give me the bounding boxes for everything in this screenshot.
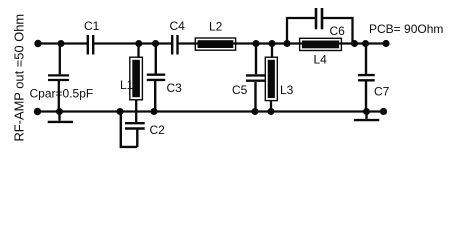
svg-text:Cpar=0.5pF: Cpar=0.5pF xyxy=(30,87,94,101)
inductor L2 xyxy=(195,38,235,50)
wire top rail left segment xyxy=(38,42,87,44)
svg-text:L1: L1 xyxy=(120,78,134,92)
svg-text:L2: L2 xyxy=(209,20,223,34)
junction C3 bottom xyxy=(151,108,158,115)
junction L3 top xyxy=(269,40,276,47)
capacitor C1 xyxy=(88,35,93,55)
svg-text:C5: C5 xyxy=(232,83,248,97)
junction Cpar top xyxy=(58,40,65,47)
capacitor C5 xyxy=(246,44,266,112)
capacitor C7 xyxy=(358,44,375,112)
ground left xyxy=(48,112,73,122)
inductor L1 xyxy=(130,44,143,123)
capacitor C4 xyxy=(172,35,177,55)
node input terminal top xyxy=(34,40,41,47)
svg-text:C7: C7 xyxy=(374,85,390,99)
capacitor C3 xyxy=(147,44,165,112)
inductor L4 xyxy=(300,38,342,50)
capacitor C6 xyxy=(316,8,322,29)
wire C2 loop xyxy=(121,112,138,147)
junction C3 top xyxy=(152,40,159,47)
svg-text:PCB= 90Ohm: PCB= 90Ohm xyxy=(369,22,443,36)
svg-text:C1: C1 xyxy=(84,19,100,33)
junction C5 top xyxy=(253,40,260,47)
capacitor Cpar xyxy=(48,44,69,112)
junction C5 bottom xyxy=(252,108,259,115)
svg-text:C6: C6 xyxy=(330,24,346,38)
ground right xyxy=(354,112,380,121)
svg-text:C3: C3 xyxy=(167,81,183,95)
svg-text:RF-AMP out =50 Ohm: RF-AMP out =50 Ohm xyxy=(12,14,27,142)
svg-text:L4: L4 xyxy=(314,53,328,67)
svg-text:C4: C4 xyxy=(170,19,186,33)
capacitor C2 xyxy=(125,123,145,147)
wire bottom rail xyxy=(37,110,384,112)
junction Cpar bottom xyxy=(56,108,63,115)
junction loop right xyxy=(351,40,358,47)
junction C7 top xyxy=(362,40,369,47)
junction C2 loop xyxy=(117,108,124,115)
junction L3 bottom xyxy=(268,108,275,115)
svg-text:L3: L3 xyxy=(280,83,294,97)
inductor L3 xyxy=(265,44,277,112)
wire top rail right segment xyxy=(178,42,386,44)
node input terminal bottom xyxy=(34,108,41,115)
wire top rail middle segment xyxy=(94,42,172,44)
wire C6 loop xyxy=(287,18,353,44)
node output terminal bottom xyxy=(380,108,387,115)
svg-text:C2: C2 xyxy=(150,123,166,137)
junction loop left xyxy=(284,40,291,47)
node output terminal top xyxy=(382,40,389,47)
junction L1 top xyxy=(135,40,142,47)
junction C7 bottom xyxy=(363,108,370,115)
node label RF-AMP out =50 Ohm xyxy=(12,14,27,142)
